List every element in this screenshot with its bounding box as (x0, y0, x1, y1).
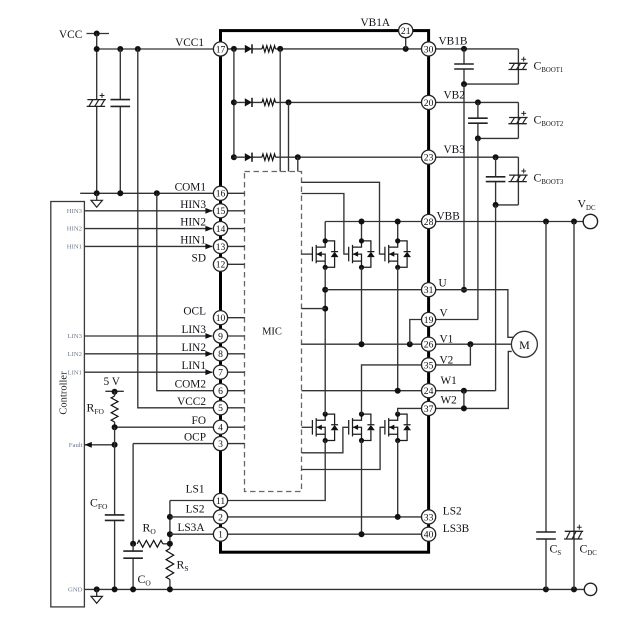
wire CBOOT3 bottom wire (496, 204, 519, 206)
wire CBOOT1 ceramic leads (463, 49, 465, 84)
svg-text:1: 1 (218, 530, 223, 541)
pin 23 VB3 (422, 150, 436, 164)
pin 40 LS3B (422, 527, 436, 541)
svg-text:35: 35 (424, 360, 434, 371)
capacitor CBOOT1 ceramic (454, 64, 474, 69)
junction CBOOT2 bottom (475, 135, 481, 141)
resistor RFO (111, 396, 118, 422)
wire ground rail (84, 588, 584, 590)
wire bootstrap2 return (477, 138, 479, 319)
pin 24 W1 (422, 384, 436, 398)
svg-text:26: 26 (424, 340, 434, 351)
diode DBOOT2 (245, 98, 252, 107)
wire W2 external to motor (436, 351, 512, 408)
svg-text:VCC1: VCC1 (175, 37, 204, 49)
pin 11 LS1 (213, 493, 227, 507)
svg-text:LS2: LS2 (186, 504, 205, 516)
arrowhead Fault (85, 442, 92, 448)
svg-text:24: 24 (424, 386, 434, 397)
junction rail/CS (543, 586, 549, 592)
wire V row external (436, 319, 479, 321)
wire pin19 internal link (410, 320, 422, 345)
wire RO right lead (163, 543, 170, 545)
svg-text:5: 5 (218, 403, 223, 414)
junction V1/pin19 link (407, 341, 413, 347)
svg-text:LIN2: LIN2 (182, 342, 207, 354)
capacitor C-VCC ceramic (111, 100, 131, 107)
junction VB1B/CBOOT1 (461, 46, 467, 52)
wire Q1 gate feed (302, 253, 313, 255)
junction U MIC sense (322, 306, 328, 312)
junction VBB/CDC (571, 219, 577, 225)
wire VB3 row (436, 156, 519, 158)
junction VCC (94, 31, 100, 37)
svg-text:FO: FO (192, 415, 206, 427)
wire VBB row internal (325, 221, 421, 223)
svg-text:U: U (439, 278, 447, 290)
wire U row internal (325, 289, 421, 291)
svg-text:11: 11 (216, 496, 225, 507)
svg-text:HIN3: HIN3 (67, 208, 83, 215)
wire VBB row external (436, 221, 584, 223)
svg-text:28: 28 (424, 217, 434, 228)
wire RFO top lead (114, 391, 116, 396)
junction row1/drop1 (277, 46, 283, 52)
wire W1 row internal (302, 390, 422, 392)
wire OCP row (133, 443, 213, 445)
ground rail symbol (91, 589, 102, 603)
wire VB2 diode row (234, 101, 422, 103)
junction VB3/CBOOT3 (493, 154, 499, 160)
junction row1/pin21 (403, 46, 409, 52)
junction row3/drop3 (295, 154, 301, 160)
diode DBOOT1 (245, 44, 252, 53)
wire anode bus (233, 49, 235, 157)
resistor RS (166, 549, 174, 580)
IC package outline (221, 31, 429, 553)
pin 17 VCC1 (213, 42, 227, 56)
svg-text:HIN1: HIN1 (180, 234, 206, 246)
svg-text:LIN3: LIN3 (68, 333, 83, 340)
pin 4 FO (213, 420, 227, 434)
junction bus/COM2 (154, 190, 160, 196)
motor M (511, 331, 537, 357)
wire 5V terminal bar (105, 390, 123, 392)
junction LS2/shunt (167, 514, 173, 520)
terminal DC minus (584, 583, 596, 595)
wire V1 row internal (302, 343, 422, 345)
svg-text:VCC2: VCC2 (177, 396, 206, 408)
arrowhead HIN3 (205, 208, 212, 214)
junction W1/Wphase (395, 388, 401, 394)
junction rail/CO (130, 586, 136, 592)
wire V2 external link (436, 344, 471, 365)
svg-text:Fault: Fault (69, 442, 83, 449)
svg-text:HIN2: HIN2 (180, 217, 206, 229)
pin 1 LS3A (213, 527, 227, 541)
wire VB3 diode row (234, 156, 422, 158)
svg-text:W2: W2 (441, 395, 458, 407)
transistor Q2 (high side) (349, 238, 375, 270)
wire row LIN2 (84, 353, 212, 355)
svg-text:V: V (440, 307, 449, 319)
wire bootstrap1 return (463, 84, 465, 290)
pin 6 COM2 (213, 384, 227, 398)
wire shunt node vertical (169, 501, 171, 549)
svg-text:12: 12 (216, 260, 226, 271)
junction U/boot1 (461, 287, 467, 293)
wire Q1 drain drop (324, 222, 326, 241)
svg-text:19: 19 (424, 315, 434, 326)
wire CFO column (114, 427, 116, 589)
junction V1/V2 link (467, 341, 473, 347)
svg-text:20: 20 (424, 98, 434, 109)
svg-text:14: 14 (216, 224, 226, 235)
wire bootstrap3 return (495, 205, 497, 391)
wire Q5 source to LS3 (361, 441, 363, 535)
junction 5V (112, 389, 118, 395)
capacitor CDC (polarized) (564, 525, 583, 539)
svg-text:V1: V1 (440, 334, 454, 346)
wire CBOOT1 bottom wire (464, 83, 518, 85)
wire CBOOT1 electro lead (517, 49, 519, 84)
wire Q2 drain drop (361, 222, 363, 241)
svg-text:SD: SD (192, 252, 206, 264)
junction bus1/row1 (231, 46, 237, 52)
junction LS3/Q5 (359, 531, 365, 537)
arrowhead HIN2 (205, 226, 212, 232)
resistor RO (137, 540, 163, 547)
pin 30 VB1B (422, 42, 436, 56)
ground COM1 (91, 193, 102, 207)
pin 26 V1 (422, 337, 436, 351)
svg-text:VB2: VB2 (444, 90, 466, 102)
svg-text:VCC: VCC (59, 29, 82, 41)
wire W2 row internal (398, 408, 422, 414)
junction VB2/CBOOT2 (475, 99, 481, 105)
transistor Q5 (low side) (349, 412, 375, 444)
junction V1/Vphase (359, 341, 365, 347)
junction VBB/Q2 (359, 219, 365, 225)
junction bus/row3 (231, 154, 237, 160)
wire row HIN2 (84, 228, 212, 230)
wire COM1 bus (80, 192, 213, 194)
svg-text:10: 10 (216, 313, 226, 324)
wire Q6 gate feed (302, 427, 385, 469)
wire LS3 row internal (228, 533, 422, 535)
capacitor CFO (105, 515, 125, 521)
wire pin21 stub (405, 38, 407, 49)
capacitor C-VCC electrolytic (polarized) (87, 93, 106, 106)
junction OCP/RO/CO (130, 541, 136, 547)
wire Q5 gate feed (302, 427, 349, 453)
wire VCC electrolytic column (96, 34, 98, 194)
wire U MIC sense stub (302, 308, 326, 310)
svg-text:OCP: OCP (184, 432, 206, 444)
svg-text:VBB: VBB (437, 211, 460, 223)
wire CBOOT3 electro lead (517, 157, 519, 205)
arrowhead LIN3 (205, 333, 212, 339)
wire VCC ceramic column (119, 49, 121, 193)
svg-text:9: 9 (218, 331, 223, 342)
pin 35 V2 (422, 358, 436, 372)
terminal VDC (583, 214, 597, 228)
svg-text:13: 13 (216, 242, 226, 253)
arrowhead HIN1 (205, 244, 212, 250)
wire drop3 to MIC (297, 157, 299, 171)
svg-text:W1: W1 (441, 375, 457, 387)
wire Q4 source to LS1 (228, 441, 326, 501)
wire CS column (545, 222, 547, 590)
wire RS bottom lead (169, 580, 171, 590)
wire V phase vertical (361, 267, 363, 344)
wire V2 row internal (362, 365, 422, 414)
arrowhead LIN2 (205, 351, 212, 357)
svg-text:LS3B: LS3B (443, 523, 469, 535)
pin 28 VBB (422, 214, 436, 228)
svg-text:23: 23 (424, 153, 434, 164)
svg-text:8: 8 (218, 349, 223, 360)
wire row LIN3 (84, 335, 212, 337)
pin 37 W2 (422, 401, 436, 415)
wire W1 row external (436, 390, 496, 392)
diode DBOOT3 (245, 153, 252, 162)
junction LS2/Q6 (395, 514, 401, 520)
junction VBB/CS (543, 219, 549, 225)
junction rail/ctrl (94, 586, 100, 592)
junction LS3A/shunt (167, 531, 173, 537)
svg-text:21: 21 (401, 26, 411, 37)
svg-text:HIN2: HIN2 (67, 226, 82, 233)
junction FO/RFO (112, 424, 118, 430)
junction bus/ceramic (117, 190, 123, 196)
wire RFO bottom lead (114, 422, 116, 427)
svg-text:2: 2 (218, 512, 223, 523)
wire drop1 to MIC (279, 49, 281, 172)
capacitor CBOOT2 (polarized) (508, 111, 527, 124)
wire FO row (115, 426, 214, 428)
svg-text:LIN1: LIN1 (182, 360, 206, 372)
pin 19 V (422, 312, 436, 326)
junction W2 (461, 405, 467, 411)
wire CBOOT2 electro lead (517, 102, 519, 138)
junction W1/W2 link (461, 388, 467, 394)
svg-text:33: 33 (424, 512, 434, 523)
junction VCC1/VCC2 feed (135, 46, 141, 52)
junction rail/CFO (112, 586, 118, 592)
capacitor CBOOT3 (polarized) (508, 169, 527, 182)
transistor Q6 (low side) (385, 412, 411, 444)
pin 9 LIN3 (213, 329, 227, 343)
svg-text:6: 6 (218, 386, 223, 397)
svg-text:40: 40 (424, 530, 434, 541)
transistor Q1 (high side) (312, 238, 338, 270)
junction CBOOT1 bottom (461, 81, 467, 87)
Controller block (51, 202, 85, 607)
svg-text:Controller: Controller (59, 371, 70, 415)
wire VCC2 feed column (138, 49, 214, 408)
svg-text:3: 3 (218, 439, 223, 450)
wire Q6 source to LS2 (397, 441, 399, 517)
svg-text:HIN1: HIN1 (67, 244, 82, 251)
wire LS2 row left (170, 516, 214, 518)
pin 7 LIN1 (213, 365, 227, 379)
wire Q2 gate feed (302, 194, 349, 255)
capacitor CBOOT1 (polarized) (508, 57, 527, 70)
junction RO/shunt (167, 541, 173, 547)
svg-text:LIN3: LIN3 (182, 324, 207, 336)
junction rail/CDC (571, 586, 577, 592)
wire U external to motor (436, 290, 514, 338)
pin 3 OCP (213, 437, 227, 451)
pin 16 COM1 (213, 186, 227, 200)
wire CBOOT3 ceramic leads (495, 157, 497, 205)
pin 13 HIN1 (213, 239, 227, 253)
svg-text:OCL: OCL (183, 306, 206, 318)
pin 14 HIN2 (213, 222, 227, 236)
wire row LIN1 (84, 371, 212, 373)
svg-text:VB1B: VB1B (439, 36, 468, 48)
pin 2 LS2 (213, 510, 227, 524)
svg-text:M: M (519, 338, 530, 352)
svg-text:7: 7 (218, 368, 223, 379)
junction VBB/Q3 (395, 219, 401, 225)
capacitor CBOOT3 ceramic (486, 177, 506, 182)
junction CBOOT3 bottom (493, 202, 499, 208)
wire Q3 gate feed (302, 182, 385, 254)
junction rail/RS (167, 586, 173, 592)
svg-text:HIN3: HIN3 (180, 199, 206, 211)
svg-text:V2: V2 (440, 355, 454, 367)
capacitor CS (536, 532, 556, 539)
resistor RBOOT3 (262, 154, 275, 160)
svg-text:31: 31 (424, 285, 434, 296)
svg-text:COM1: COM1 (175, 181, 206, 193)
pin 10 OCL (213, 311, 227, 325)
svg-text:37: 37 (424, 404, 434, 415)
wire CDC column (573, 222, 575, 590)
wire MIC input stubs (228, 193, 245, 443)
wire OCP column (132, 444, 134, 544)
wire CBOOT2 bottom wire (478, 137, 519, 139)
svg-text:MIC: MIC (262, 327, 282, 338)
junction bus/electro (94, 190, 100, 196)
pin 21 VB1A (399, 24, 413, 38)
svg-text:VB3: VB3 (444, 144, 466, 156)
wire Q3 drain drop (397, 222, 399, 241)
junction bus/row2 (231, 99, 237, 105)
wire V1 external to motor (436, 343, 512, 345)
svg-text:17: 17 (216, 44, 226, 55)
wire COM2 feed column (157, 193, 214, 390)
arrowhead LIN1 (205, 369, 212, 375)
wire W phase vertical (397, 267, 399, 390)
wire CO column (132, 544, 134, 590)
wire row HIN1 (84, 245, 212, 247)
wire U phase vertical (324, 267, 326, 414)
wire VB1 diode row (228, 48, 422, 50)
svg-text:5 V: 5 V (104, 376, 121, 388)
pin 15 HIN3 (213, 204, 227, 218)
svg-text:16: 16 (216, 189, 226, 200)
svg-text:LS2: LS2 (443, 506, 462, 518)
svg-text:15: 15 (216, 206, 226, 217)
junction row2/drop2 (286, 99, 292, 105)
wire VB1B row (436, 48, 519, 50)
junction VCC1/ceramic (117, 46, 123, 52)
wire LS1 row left (170, 500, 214, 502)
transistor Q3 (high side) (385, 238, 411, 270)
pin 5 VCC2 (213, 401, 227, 415)
MIC block (dashed) (245, 172, 302, 492)
wire W1-W2 link (463, 391, 465, 409)
svg-text:LIN1: LIN1 (68, 369, 83, 376)
svg-text:LIN2: LIN2 (68, 351, 83, 358)
wire VCC1 row (97, 48, 214, 50)
wire Fault row (85, 444, 115, 446)
svg-text:GND: GND (68, 587, 83, 594)
junction U row (322, 287, 328, 293)
svg-text:LS1: LS1 (186, 483, 205, 495)
svg-text:LS3A: LS3A (178, 522, 206, 534)
wire VB2 row (436, 101, 519, 103)
wire Q4 gate feed (302, 426, 313, 428)
pin 20 VB2 (422, 95, 436, 109)
resistor RBOOT1 (262, 46, 275, 52)
svg-text:VB1A: VB1A (361, 17, 391, 29)
wire CBOOT2 ceramic leads (477, 102, 479, 138)
junction VCC1/electro (94, 46, 100, 52)
wire VCC lead (87, 33, 110, 35)
resistor RBOOT2 (262, 99, 275, 105)
pin 33 LS2 (422, 510, 436, 524)
svg-text:COM2: COM2 (175, 379, 207, 391)
transistor Q4 (low side) (312, 412, 338, 444)
wire LS3A row left (170, 533, 214, 535)
wire row HIN3 (84, 210, 212, 212)
capacitor CBOOT2 ceramic (468, 118, 488, 123)
pin 31 U (422, 283, 436, 297)
junction Fault/CFO (112, 442, 118, 448)
wire drop2 to MIC (288, 102, 290, 171)
svg-text:30: 30 (424, 44, 434, 55)
svg-text:4: 4 (218, 423, 223, 434)
pin 8 LIN2 (213, 347, 227, 361)
capacitor CO (123, 551, 143, 558)
wire LS2 row internal (228, 516, 422, 518)
pin 12 SD (213, 257, 227, 271)
